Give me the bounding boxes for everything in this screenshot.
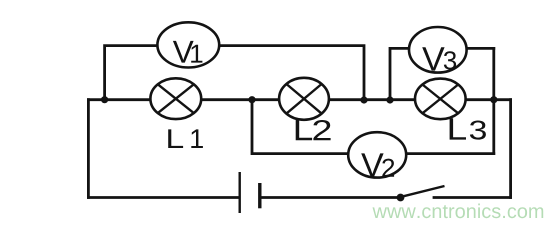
battery short plate [258,183,261,208]
junction node at V3 left [386,96,393,103]
junction node at V1 right [360,96,367,103]
switch S pivot [397,194,405,202]
watermark www.cntronics.com [373,204,544,219]
junction node at V3 right [490,96,497,103]
wire main series line [88,98,510,101]
label L3 [450,118,486,139]
wire V1 branch loop [105,46,364,100]
lamp L3 [415,79,466,120]
switch S lever [402,186,445,197]
wire V2 branch [252,100,494,154]
battery long plate [238,172,240,213]
junction node between L1 and L2 [248,96,255,103]
lamp L2 [279,78,329,120]
junction node at V1 left [101,96,108,103]
wire V3 right riser down to V2 right [492,48,495,153]
voltmeter V2 [348,132,406,177]
wire switch to right corner [434,196,511,199]
wire battery to switch [261,196,398,199]
wire left vertical [87,100,90,198]
label L2 [296,119,331,140]
wire bottom left to battery [88,196,238,199]
lamp L1 [150,78,201,119]
wire V3 branch left riser [390,48,494,99]
voltmeter V3 [409,27,467,73]
wire right vertical [509,100,512,198]
voltmeter V1 [157,22,219,67]
label L1 [168,129,203,148]
